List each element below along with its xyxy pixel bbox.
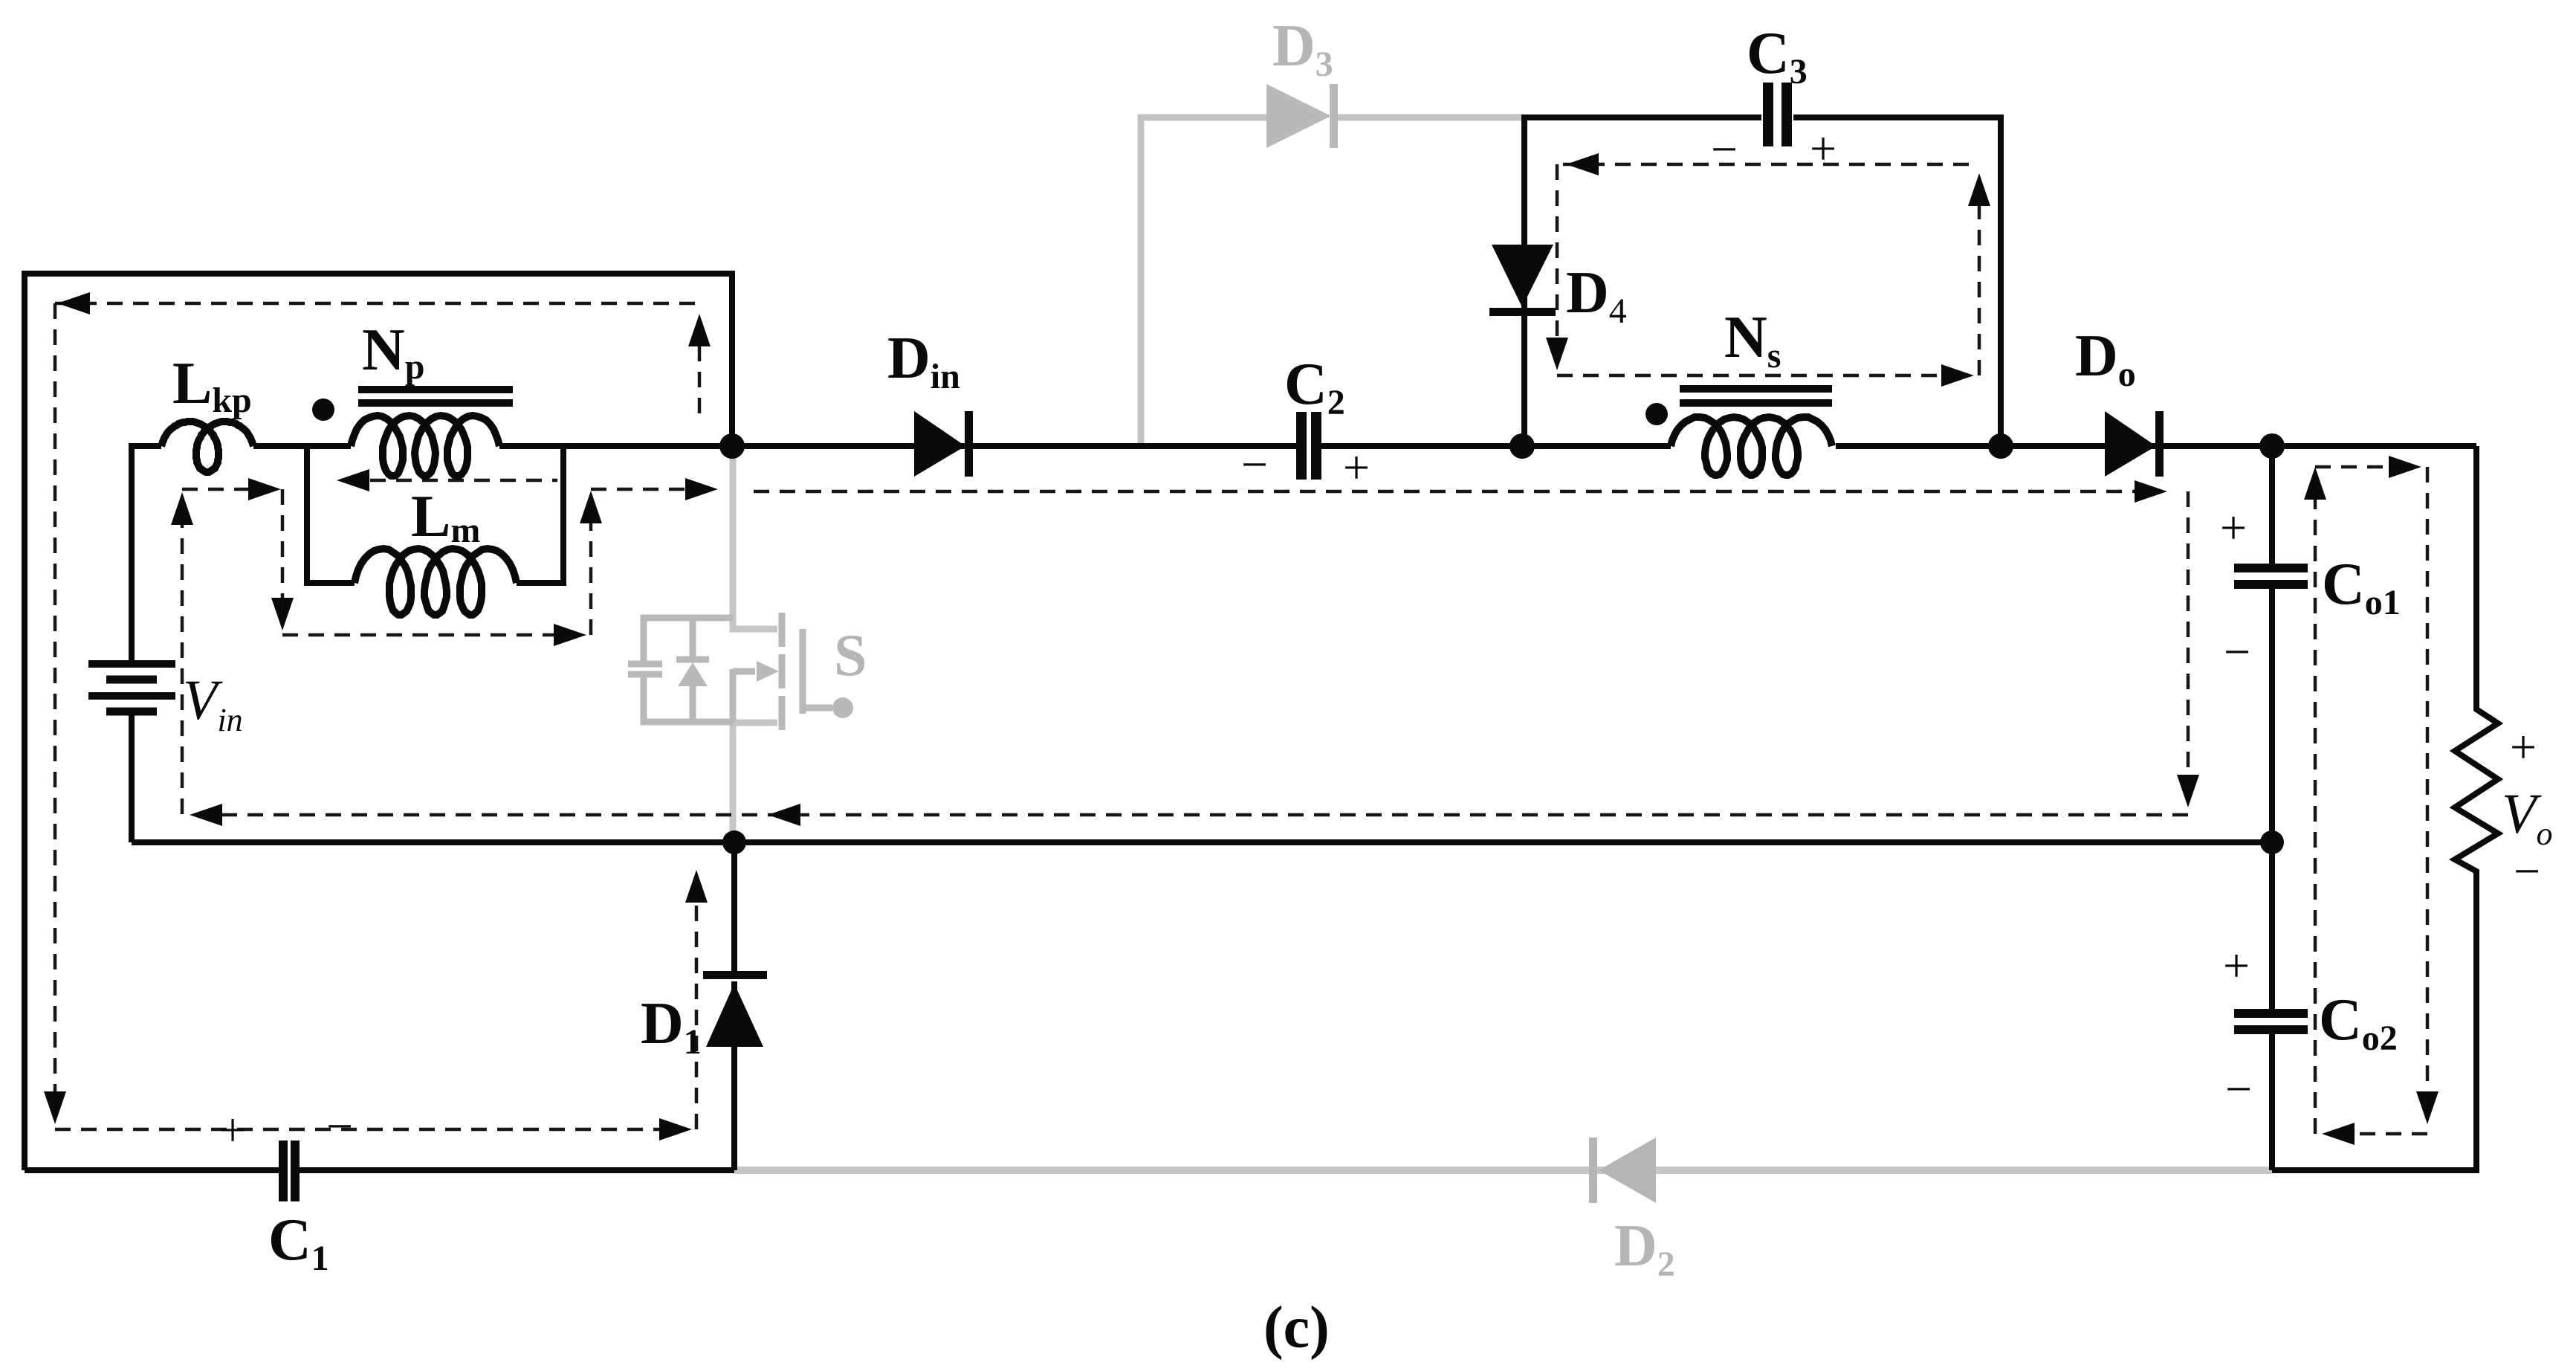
current path loop 1, left side (54, 303, 57, 1113)
svg-text:(c): (c) (1263, 1295, 1330, 1361)
current path 4 (secondary loop along main bus) (754, 490, 2154, 494)
svg-text:+: + (1810, 122, 1836, 175)
wire gray branch to diode D3 (1141, 117, 1524, 446)
current path 4, return along middle bus (187, 813, 2188, 817)
wire Np/Lm parallel left leg (307, 446, 355, 583)
transformer primary winding Np (351, 416, 499, 476)
loop 2 arrowheads (171, 478, 718, 646)
Ns core bars (1680, 389, 1832, 403)
svg-text:−: − (326, 1100, 353, 1152)
svg-text:+: + (2220, 501, 2247, 554)
node junction dots (719, 433, 2285, 854)
Np core bars (358, 390, 513, 403)
transistor S (MOSFET, off-state gray) (628, 613, 832, 730)
svg-text:−: − (2224, 625, 2250, 678)
diode D3 (1266, 84, 1338, 148)
svg-text:−: − (2225, 1062, 2252, 1115)
current path 4, drop right of Do (2187, 491, 2190, 801)
loop 2, rise right of Lm (589, 495, 593, 635)
current path loop 6 (Co1/Co2/load loop), left side (2314, 473, 2317, 1134)
wire Vin branch upper (132, 446, 161, 664)
current path loop 2 (Vin-Lkp-Lm-S), Vin rise (181, 497, 184, 814)
svg-text:S: S (834, 623, 867, 688)
wire gray drain/source of switch S (733, 446, 777, 842)
loop 5 arrowheads (1546, 153, 1990, 387)
current path loop 1 (outer C1 charging loop), top side (698, 317, 702, 413)
wire outer top-left box (25, 274, 732, 1170)
loop 6 arrowheads (2304, 456, 2439, 1145)
diode D2 (1589, 1138, 1656, 1203)
svg-text:+: + (2223, 939, 2250, 992)
wire C3/D4 cell box (1524, 117, 2001, 446)
wire output right branch with load (2272, 446, 2498, 1170)
diode Do (2105, 411, 2164, 477)
wire D1 branch (731, 842, 737, 1170)
wire Co1 branch (2269, 446, 2275, 842)
svg-text:+: + (219, 1103, 246, 1156)
current path loop 1, bottom side (55, 1128, 687, 1132)
Np phase dot (312, 399, 334, 421)
wire Co2 branch (2269, 842, 2275, 1170)
loop 6, right side through load (2426, 467, 2430, 1119)
wire Np/Lm parallel right leg (517, 446, 563, 583)
Ns phase dot (1645, 403, 1668, 425)
capacitor C2 (1301, 412, 1316, 480)
diode D4 (1489, 245, 1556, 316)
current path loop 1, rise to D1 (695, 876, 699, 1129)
diode D1 (703, 971, 767, 1047)
wire main top bus (253, 443, 2476, 449)
svg-text:−: − (1711, 123, 1738, 175)
wire gray bottom branch with diode D2 (734, 1167, 2272, 1174)
inductor Lm (magnetizing) (355, 549, 517, 615)
transformer secondary winding Ns (1671, 417, 1832, 475)
wire Vin branch lower (129, 712, 135, 842)
capacitor C3 (1768, 83, 1787, 146)
capacitor C1 (283, 1140, 295, 1201)
path 4 arrowheads (190, 480, 2199, 826)
loop 1 arrowheads (44, 292, 711, 1140)
diode Din (914, 411, 973, 477)
capacitor Co1 (2234, 568, 2308, 584)
current path loop 5 (C3-D4-Ns resonant loop) (1563, 163, 1979, 167)
current path loop 3 (Lm magnetizing), arrow into Np (344, 479, 557, 483)
loop 2, down between Lkp and Lm (281, 489, 285, 625)
inductor Lkp (161, 422, 253, 472)
svg-text:−: − (1241, 438, 1268, 491)
svg-text:+: + (1343, 441, 1370, 494)
battery Vin (88, 664, 175, 712)
svg-text:−: − (2514, 845, 2540, 897)
wire middle bus (132, 839, 2272, 845)
svg-text:+: + (2510, 720, 2537, 773)
capacitor Co2 (2234, 1013, 2308, 1030)
wire bottom bus (left of D1) (25, 1167, 734, 1173)
